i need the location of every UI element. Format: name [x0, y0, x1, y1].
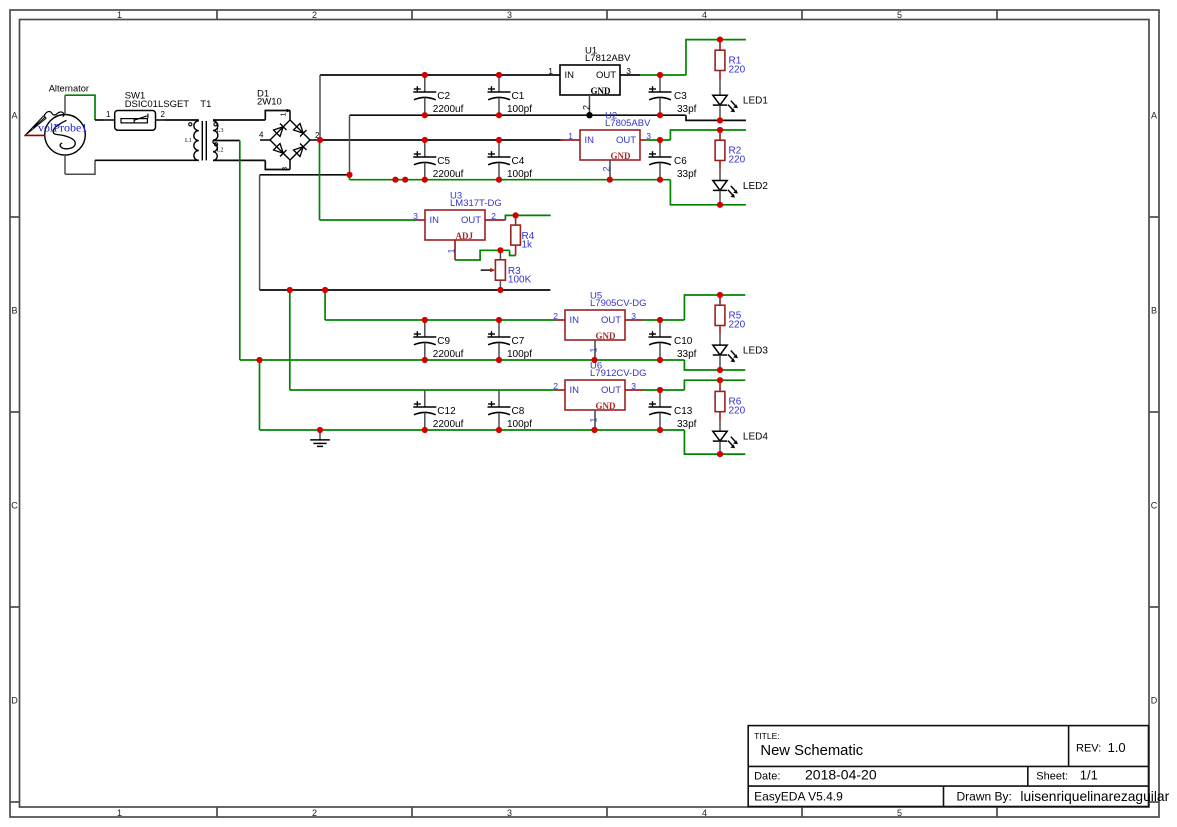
svg-text:LED4: LED4: [743, 432, 768, 443]
wire: [719, 170, 721, 181]
capacitor C13 33pf: [649, 390, 697, 430]
wire: [259, 175, 261, 290]
svg-text:L7812ABV: L7812ABV: [585, 53, 631, 64]
svg-text:C7: C7: [512, 336, 525, 347]
svg-text:Sheet:: Sheet:: [1036, 771, 1068, 783]
svg-text:5: 5: [897, 808, 902, 818]
wire: [349, 175, 351, 180]
wire: [640, 74, 686, 76]
svg-text:100K: 100K: [508, 275, 532, 286]
svg-text:L1: L1: [185, 138, 192, 144]
junction: [322, 287, 328, 293]
LED LED4: [713, 431, 769, 448]
svg-text:A: A: [1151, 111, 1157, 121]
svg-text:C13: C13: [674, 406, 693, 417]
resistor R1 220: [715, 40, 746, 80]
svg-text:1k: 1k: [522, 240, 534, 251]
junction: [422, 112, 428, 118]
svg-text:C4: C4: [512, 156, 525, 167]
regulator U3 LM317T-DG: [413, 190, 501, 241]
pin 2 of U1: [589, 95, 591, 115]
capacitor C2 2200uf: [413, 75, 463, 115]
svg-text:C6: C6: [674, 156, 687, 167]
junction: [496, 427, 502, 433]
junction: [422, 317, 428, 323]
junction: [422, 137, 428, 143]
svg-text:C8: C8: [512, 406, 525, 417]
diode lower-right: [294, 147, 304, 157]
wire: [719, 441, 721, 454]
regulator U1 L7812ABV: [548, 45, 631, 96]
svg-text:C2: C2: [437, 91, 450, 102]
junction: [496, 72, 502, 78]
wire: [684, 380, 745, 390]
svg-text:GND: GND: [591, 86, 612, 96]
svg-text:Date:: Date:: [754, 771, 780, 783]
svg-text:GND: GND: [596, 331, 617, 341]
wire: [289, 290, 291, 390]
junction: [657, 317, 663, 323]
pin 2 of U5 (IN): [555, 319, 565, 321]
svg-text:100pf: 100pf: [507, 349, 532, 360]
junction: [717, 292, 723, 298]
wire to U1 input: [320, 74, 560, 76]
polarity dot: [214, 123, 217, 126]
svg-text:C: C: [1151, 501, 1158, 511]
wire: [719, 80, 721, 96]
pin 3 of U5 (OUT): [625, 319, 644, 321]
svg-text:1: 1: [279, 112, 288, 116]
svg-text:D: D: [11, 696, 18, 706]
svg-text:2018-04-20: 2018-04-20: [805, 767, 877, 783]
svg-text:New Schematic: New Schematic: [760, 743, 863, 759]
svg-text:2: 2: [582, 105, 592, 110]
diode upper-left: [274, 127, 284, 137]
junction: [392, 177, 398, 183]
svg-text:33pf: 33pf: [677, 349, 697, 360]
junction: [717, 37, 723, 43]
svg-text:4: 4: [259, 131, 264, 140]
wire: [719, 355, 721, 370]
wire: [239, 141, 241, 361]
diode upper-right: [294, 124, 304, 134]
svg-text:OUT: OUT: [616, 135, 636, 146]
svg-text:C10: C10: [674, 336, 693, 347]
wire: [684, 430, 745, 454]
svg-text:IN: IN: [585, 135, 595, 146]
svg-text:100pf: 100pf: [507, 104, 532, 115]
diode lower-left: [274, 144, 284, 154]
wire: [65, 160, 95, 174]
svg-text:C5: C5: [437, 156, 450, 167]
svg-text:EasyEDA V5.4.9: EasyEDA V5.4.9: [754, 790, 843, 804]
junction: [496, 177, 502, 183]
pin 1: [289, 111, 291, 121]
junction: [717, 117, 723, 123]
svg-text:OUT: OUT: [601, 315, 621, 326]
regulator U6 L7912CV-DG: [553, 360, 646, 411]
pin 1 of U2: [560, 139, 580, 141]
svg-text:L7905CV-DG: L7905CV-DG: [590, 298, 647, 309]
svg-text:volProbe1: volProbe1: [38, 121, 87, 135]
transformer T1: [185, 99, 223, 160]
wire: [684, 360, 745, 370]
svg-text:220: 220: [729, 319, 746, 330]
wire: [319, 75, 321, 140]
svg-text:LED1: LED1: [743, 96, 768, 107]
svg-text:T1: T1: [200, 99, 211, 110]
pin 2 of U2: [609, 160, 611, 180]
wire gnd rail row1: [350, 114, 686, 116]
svg-text:Drawn By:: Drawn By:: [957, 790, 1012, 804]
core: [201, 121, 203, 160]
wire: [646, 139, 670, 141]
junction: [346, 172, 352, 178]
LED LED1: [713, 95, 769, 112]
svg-text:33pf: 33pf: [677, 104, 697, 115]
svg-text:GND: GND: [596, 401, 617, 411]
capacitor C12 2200uf: [413, 390, 463, 430]
svg-text:C3: C3: [674, 91, 687, 102]
polarity dot: [214, 143, 217, 146]
wire: [349, 115, 351, 175]
capacitor C4 100pf: [488, 140, 533, 180]
regulator U2 L7805ABV: [568, 110, 651, 161]
svg-text:IN: IN: [430, 215, 440, 226]
junction: [717, 377, 723, 383]
svg-text:L7912CV-DG: L7912CV-DG: [590, 368, 647, 379]
wire: [265, 111, 290, 121]
capacitor C8 100pf: [488, 390, 533, 430]
svg-text:GND: GND: [611, 151, 632, 161]
junction: [717, 367, 723, 373]
svg-text:2200uf: 2200uf: [433, 419, 464, 430]
svg-text:3: 3: [507, 10, 512, 20]
junction: [717, 127, 723, 133]
junction: [422, 177, 428, 183]
capacitor C5 2200uf: [413, 140, 463, 180]
junction: [402, 177, 408, 183]
wire: [259, 360, 261, 430]
regulator U5 L7905CV-DG: [553, 290, 646, 341]
junction: [657, 177, 663, 183]
svg-text:C: C: [11, 501, 18, 511]
svg-text:1: 1: [117, 808, 122, 818]
svg-text:D: D: [1151, 696, 1158, 706]
wire: [505, 215, 550, 220]
alternator G1: [45, 84, 89, 156]
capacitor C1 100pf: [488, 75, 533, 115]
resistor R3 100K: [481, 250, 532, 290]
pin 1 of U6: [594, 410, 596, 430]
svg-text:IN: IN: [570, 315, 580, 326]
svg-text:1: 1: [589, 347, 599, 352]
junction: [657, 112, 663, 118]
svg-text:B: B: [11, 306, 17, 316]
svg-text:3: 3: [507, 808, 512, 818]
junction: [657, 387, 663, 393]
winding L2: [213, 143, 217, 160]
pin 3 of U2: [640, 139, 646, 141]
wire: [719, 335, 721, 345]
junction: [717, 451, 723, 457]
junction: [657, 137, 663, 143]
svg-text:OUT: OUT: [461, 215, 481, 226]
svg-text:LED3: LED3: [743, 346, 768, 357]
ground: [310, 430, 330, 446]
capacitor C7 100pf: [488, 320, 533, 360]
svg-text:4: 4: [702, 10, 707, 20]
svg-text:C1: C1: [512, 91, 525, 102]
wire: [324, 290, 326, 320]
wire: [95, 159, 199, 161]
svg-text:220: 220: [729, 154, 746, 165]
svg-text:2200uf: 2200uf: [433, 169, 464, 180]
junction: [496, 137, 502, 143]
svg-text:5: 5: [897, 10, 902, 20]
junction: [657, 357, 663, 363]
svg-text:1: 1: [589, 417, 599, 422]
junction: [422, 427, 428, 433]
pin 1 of U3 (ADJ): [454, 240, 456, 260]
svg-text:LED2: LED2: [743, 181, 768, 192]
pin 3 of U6 (OUT): [625, 389, 644, 391]
svg-text:IN: IN: [565, 70, 575, 81]
LED LED3: [713, 345, 769, 362]
wire: [64, 95, 66, 114]
wire: [670, 180, 746, 205]
switch SW1 DSIC01LSGET: [105, 91, 190, 131]
wire: [644, 389, 684, 391]
junction: [287, 287, 293, 293]
voltage probe volProbe1: [24, 112, 87, 136]
wire: [95, 119, 105, 121]
svg-text:REV:: REV:: [1076, 743, 1101, 755]
junction: [717, 202, 723, 208]
junction: [591, 357, 597, 363]
polarity dot: [189, 123, 192, 126]
svg-text:ADJ: ADJ: [456, 231, 474, 241]
wire to U6 input: [290, 389, 555, 391]
pin 2 of U3 (OUT): [485, 219, 505, 221]
wire: [265, 160, 290, 169]
resistor R5 220: [715, 295, 746, 335]
svg-text:220: 220: [729, 406, 746, 417]
pin 2: [310, 139, 320, 141]
svg-text:1.0: 1.0: [1108, 740, 1126, 755]
svg-text:2200uf: 2200uf: [433, 104, 464, 115]
wire ADJ net: [455, 250, 510, 260]
wire: [213, 159, 265, 161]
resistor R2 220: [715, 130, 746, 170]
wire rail row3 bottom: [240, 359, 685, 361]
junction: [657, 72, 663, 78]
svg-text:luisenriquelinarezaguilar: luisenriquelinarezaguilar: [1020, 789, 1169, 804]
capacitor C9 2200uf: [413, 320, 463, 360]
junction: [317, 427, 323, 433]
pin 2 of U6 (IN): [555, 389, 565, 391]
LED LED2: [713, 181, 769, 198]
svg-text:33pf: 33pf: [677, 419, 697, 430]
svg-text:2: 2: [312, 808, 317, 818]
junction: [317, 137, 323, 143]
resistor R4 1k: [511, 215, 535, 255]
svg-text:IN: IN: [570, 385, 580, 396]
junction: [497, 287, 503, 293]
pin 3: [289, 160, 291, 170]
svg-text:L7805ABV: L7805ABV: [605, 118, 651, 129]
wire rail row4 bottom: [260, 429, 685, 431]
pin 1 of U5: [594, 340, 596, 360]
junction (black): [586, 112, 592, 118]
capacitor C3 33pf: [649, 75, 697, 115]
svg-text:1: 1: [548, 66, 553, 76]
junction: [496, 357, 502, 363]
junction: [496, 317, 502, 323]
svg-text:2200uf: 2200uf: [433, 349, 464, 360]
svg-text:Alternator: Alternator: [49, 84, 89, 94]
wire: [686, 115, 746, 120]
svg-text:TITLE:: TITLE:: [754, 731, 780, 741]
pin 4: [260, 139, 270, 141]
wire: [719, 105, 721, 120]
junction: [422, 357, 428, 363]
junction: [497, 247, 503, 253]
svg-text:2: 2: [602, 166, 612, 171]
wire +rect output rail: [320, 139, 562, 141]
wire: [620, 74, 640, 76]
svg-text:33pf: 33pf: [677, 169, 697, 180]
wire negative rail: [260, 289, 551, 291]
wire: [320, 219, 416, 221]
wire: [65, 95, 95, 120]
wire center tap: [213, 140, 240, 142]
junction: [607, 177, 613, 183]
svg-text:1: 1: [447, 248, 457, 253]
wire gnd rail row2: [350, 179, 671, 181]
resistor R6 220: [715, 380, 746, 421]
svg-text:1: 1: [106, 110, 111, 119]
capacitor C10 33pf: [649, 320, 697, 360]
svg-text:L3: L3: [217, 128, 224, 134]
junction: [422, 72, 428, 78]
svg-text:2: 2: [161, 110, 166, 119]
wire to U5 input: [325, 319, 555, 321]
svg-text:C9: C9: [437, 336, 450, 347]
title block: [748, 726, 1169, 807]
svg-text:A: A: [11, 111, 17, 121]
svg-text:1/1: 1/1: [1080, 768, 1098, 783]
svg-text:L2: L2: [217, 148, 224, 154]
wire: [213, 119, 265, 121]
junction: [256, 357, 262, 363]
svg-text:220: 220: [729, 64, 746, 75]
svg-text:LM317T-DG: LM317T-DG: [450, 198, 502, 209]
wire: [684, 295, 745, 320]
junction: [591, 427, 597, 433]
wire: [670, 130, 746, 140]
svg-text:2: 2: [312, 10, 317, 20]
capacitor C6 33pf: [649, 140, 697, 180]
pin 2: [156, 119, 166, 121]
svg-text:B: B: [1151, 306, 1157, 316]
svg-text:3: 3: [280, 167, 289, 171]
junction: [513, 212, 519, 218]
svg-text:OUT: OUT: [601, 385, 621, 396]
junction: [496, 112, 502, 118]
wire: [719, 190, 721, 204]
pin 1: [105, 119, 115, 121]
pin 3 of U3 (IN): [415, 219, 425, 221]
wire: [260, 174, 350, 176]
svg-text:4: 4: [702, 808, 707, 818]
svg-text:DSIC01LSGET: DSIC01LSGET: [125, 99, 190, 110]
winding L3: [213, 121, 218, 140]
svg-text:OUT: OUT: [596, 70, 616, 81]
svg-text:C12: C12: [437, 406, 456, 417]
wire: [166, 119, 199, 121]
svg-text:1: 1: [117, 10, 122, 20]
wire: [64, 155, 66, 174]
svg-text:2W10: 2W10: [257, 97, 282, 108]
wire: [686, 40, 746, 75]
svg-text:100pf: 100pf: [507, 169, 532, 180]
wire to U3 input: [319, 140, 321, 220]
wire: [644, 319, 684, 321]
wire: [719, 421, 721, 431]
junction: [657, 427, 663, 433]
svg-text:100pf: 100pf: [507, 419, 532, 430]
bridge rectifier D1 2W10: [257, 88, 320, 171]
